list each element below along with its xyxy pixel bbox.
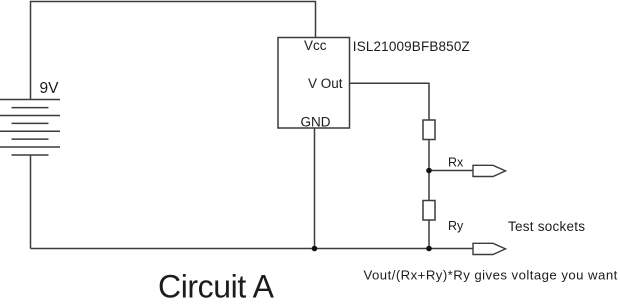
wire node A to resistor Ry <box>428 171 430 201</box>
svg-text:Vout/(Rx+Ry)*Ry gives voltage: Vout/(Rx+Ry)*Ry gives voltage you want <box>364 267 618 282</box>
wire U1 GND to ground rail <box>314 128 316 249</box>
wire U1 V Out to resistor Rx <box>350 83 430 120</box>
resistor Rx body <box>423 120 435 140</box>
svg-text:Rx: Rx <box>448 156 464 170</box>
node A junction dot (Rx/Ry divider tap) <box>426 168 432 174</box>
resistor Ry body <box>423 201 435 221</box>
svg-text:Vcc: Vcc <box>304 38 327 53</box>
node junction dot U1 GND at ground rail <box>312 246 318 252</box>
node junction dot Ry at ground rail <box>426 246 432 252</box>
battery B1 9V plates <box>0 100 60 156</box>
svg-text:Ry: Ry <box>448 219 464 233</box>
wire battery negative down to ground rail <box>30 155 32 249</box>
svg-text:GND: GND <box>301 114 331 129</box>
wire Ry to ground rail <box>428 220 430 249</box>
test socket connector for Rx tap <box>473 165 506 176</box>
wire battery positive to U1 Vcc (top rail) <box>31 2 316 100</box>
test socket connector at ground rail <box>473 243 506 254</box>
svg-text:Circuit A: Circuit A <box>158 269 275 305</box>
svg-text:9V: 9V <box>40 80 60 97</box>
svg-text:Test sockets: Test sockets <box>508 219 585 234</box>
svg-text:ISL21009BFB850Z: ISL21009BFB850Z <box>353 39 470 54</box>
wire Rx to node A <box>428 140 430 171</box>
svg-text:V Out: V Out <box>308 76 343 91</box>
op-amp / regulator U1 ISL21009BFB850Z body <box>278 38 350 129</box>
wire ground rail (bottom) <box>31 248 473 250</box>
wire node A to Rx test socket <box>429 170 473 172</box>
